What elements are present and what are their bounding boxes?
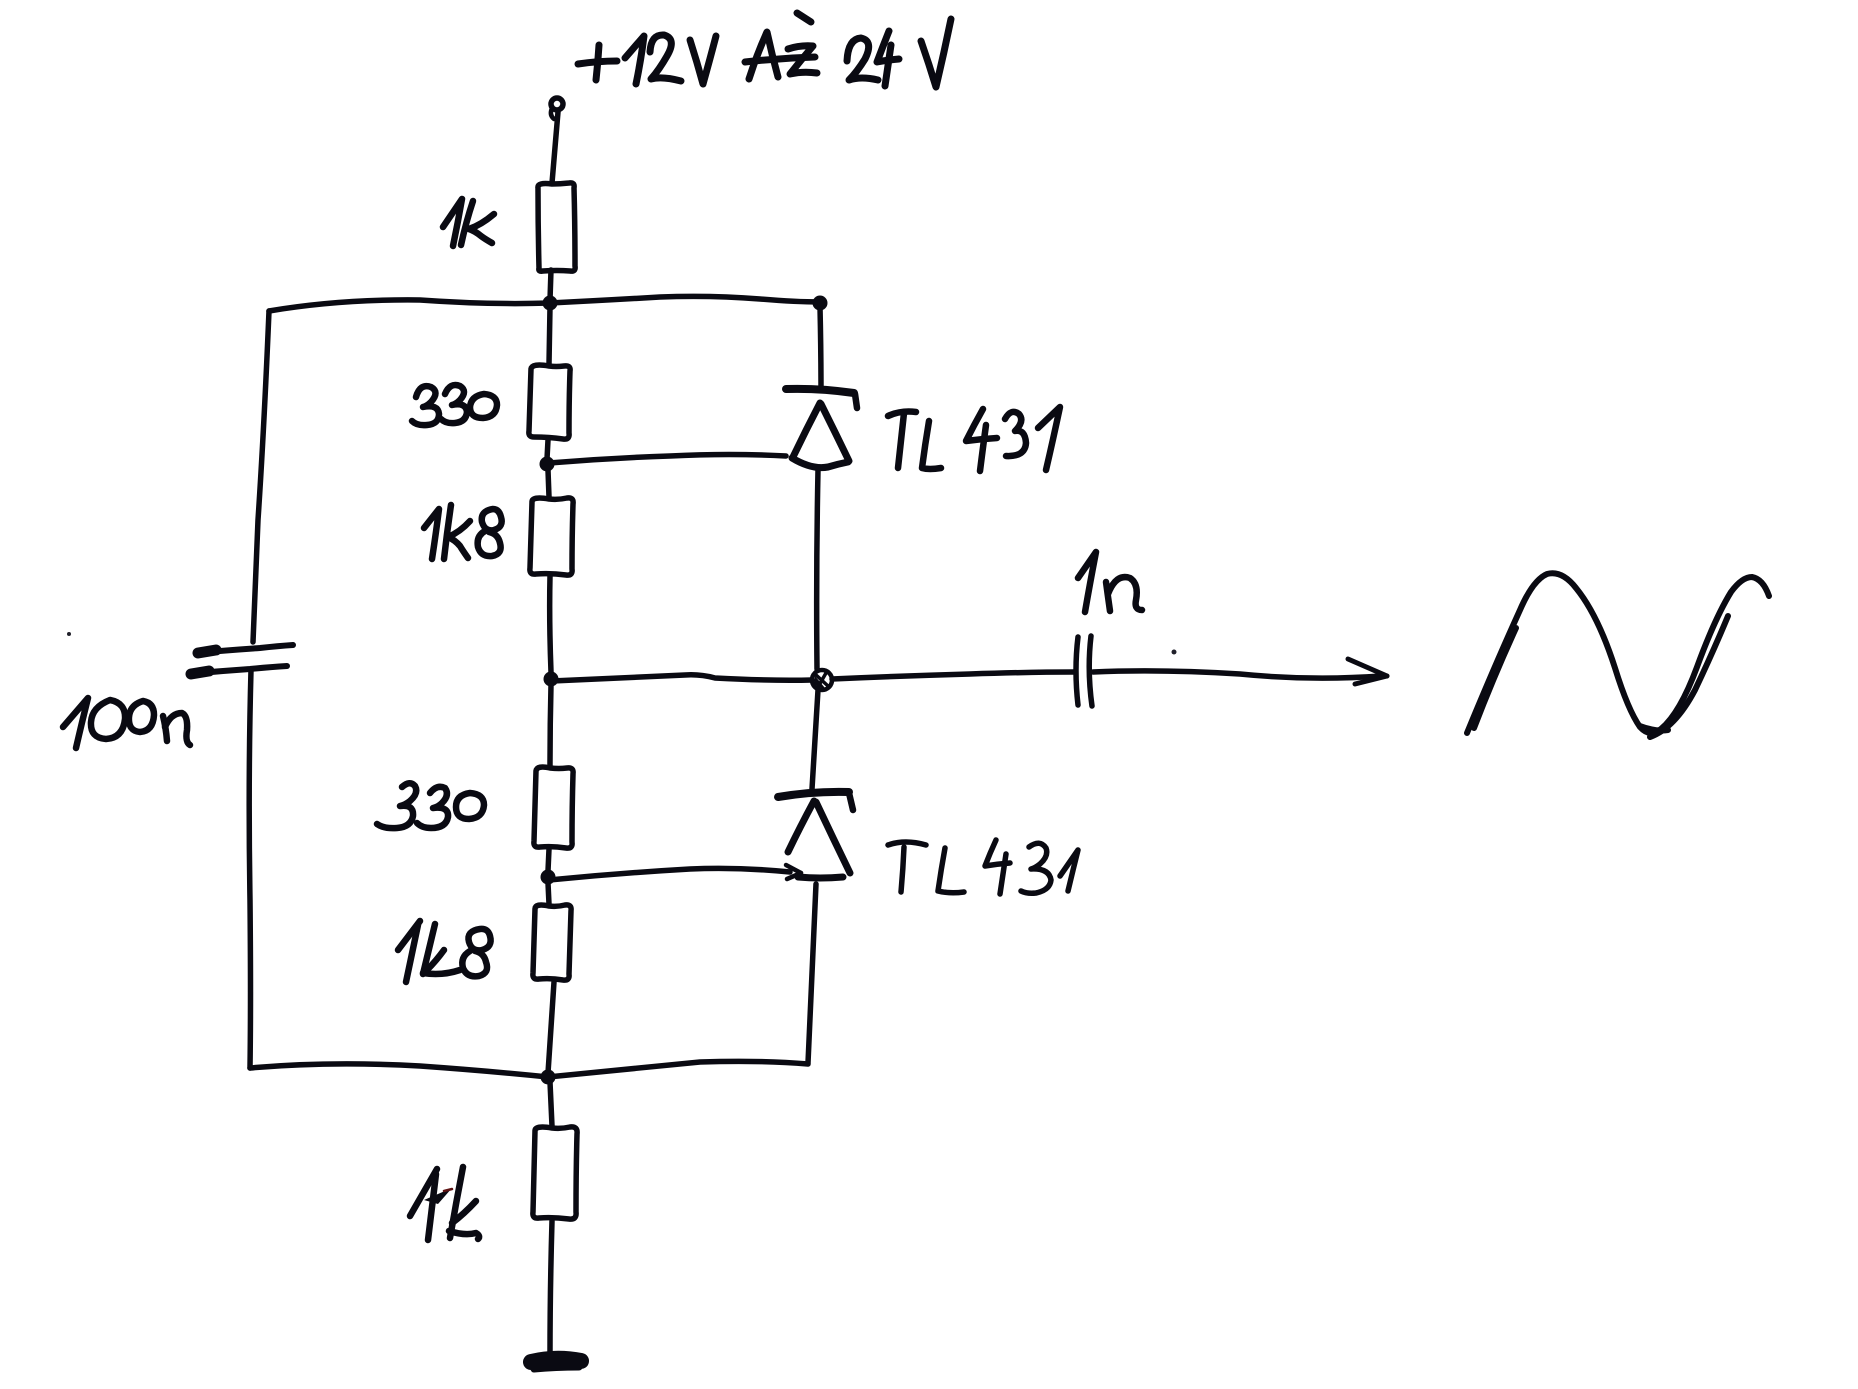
wire node OUT to U1 anode node xyxy=(552,675,812,681)
resistor R1 1k xyxy=(538,183,575,271)
resistor R2 330 xyxy=(529,365,570,439)
wire node OUT chain to R4 xyxy=(550,685,551,766)
label 330 (R4) xyxy=(377,783,484,828)
op-amp U1 TL431 shunt regulator xyxy=(786,389,857,468)
wire node C to R5 xyxy=(548,883,549,904)
wire terminal to R1 xyxy=(552,112,558,183)
wire left branch down to C1 xyxy=(253,311,269,642)
node B junction xyxy=(540,457,555,472)
label 1k8 (R3) xyxy=(424,505,502,559)
wire node C to U2 ref with arrowhead xyxy=(549,868,790,880)
wire node OUT to C2 xyxy=(832,672,1074,679)
node OUT open circle xyxy=(812,670,832,690)
junction top rail / R2 xyxy=(543,296,558,311)
wire rail to R2 xyxy=(549,307,550,364)
wire R3 to node OUT xyxy=(550,576,551,672)
label 1k8 (R5) xyxy=(398,921,491,982)
wire R4 to node C xyxy=(548,849,549,871)
junction top rail / U1 xyxy=(813,296,828,311)
label 1k (R1) xyxy=(443,199,494,246)
resistor R5 1k8 xyxy=(533,905,571,980)
wire U1 anode to node OUT xyxy=(817,470,818,669)
wire top rail xyxy=(269,296,820,311)
node C junction xyxy=(541,870,556,885)
label 100n (C1) xyxy=(63,698,190,748)
label +12V Az 24V xyxy=(578,13,951,87)
bottom rail junction xyxy=(541,1070,556,1085)
wire rail to U1 cathode xyxy=(820,307,821,390)
label 1n (C2) xyxy=(1078,552,1142,612)
wire U1 ref to R2/R3 node xyxy=(549,455,786,464)
sine wave output xyxy=(1467,573,1769,737)
wire C1 to bottom rail xyxy=(249,670,251,1068)
wire R1 to top rail xyxy=(550,270,551,300)
label TL431 (U1) xyxy=(888,407,1060,471)
label 1k (R6) xyxy=(410,1167,479,1240)
node OUT junction xyxy=(544,672,559,687)
capacitor C2 1n xyxy=(1076,636,1092,706)
wire R6 to ground xyxy=(550,1221,552,1355)
output arrow head xyxy=(1348,659,1387,684)
resistor R4 330 xyxy=(534,767,573,848)
wire C2 to output arrow xyxy=(1093,671,1382,678)
wire node B to R3 xyxy=(548,470,549,497)
wire U2 anode down xyxy=(808,884,816,1063)
resistor R3 1k8 xyxy=(530,498,573,575)
resistor R6 1k xyxy=(533,1127,577,1219)
wire junction to R6 xyxy=(550,1082,552,1126)
ground xyxy=(531,1359,581,1369)
op-amp U2 TL431 shunt regulator xyxy=(778,792,853,878)
ink speck xyxy=(67,632,71,636)
ink speck xyxy=(1172,650,1177,655)
power terminal xyxy=(551,98,563,119)
capacitor C1 100n xyxy=(189,645,293,674)
wire node OUT down to U2 cathode xyxy=(812,690,818,789)
wire R5 to bottom junction xyxy=(548,982,554,1073)
label 330 (R2) xyxy=(412,385,497,425)
wire R2 to node B xyxy=(547,440,548,459)
wire bottom rail xyxy=(250,1061,808,1077)
label TL431 (U2) xyxy=(888,840,1078,894)
